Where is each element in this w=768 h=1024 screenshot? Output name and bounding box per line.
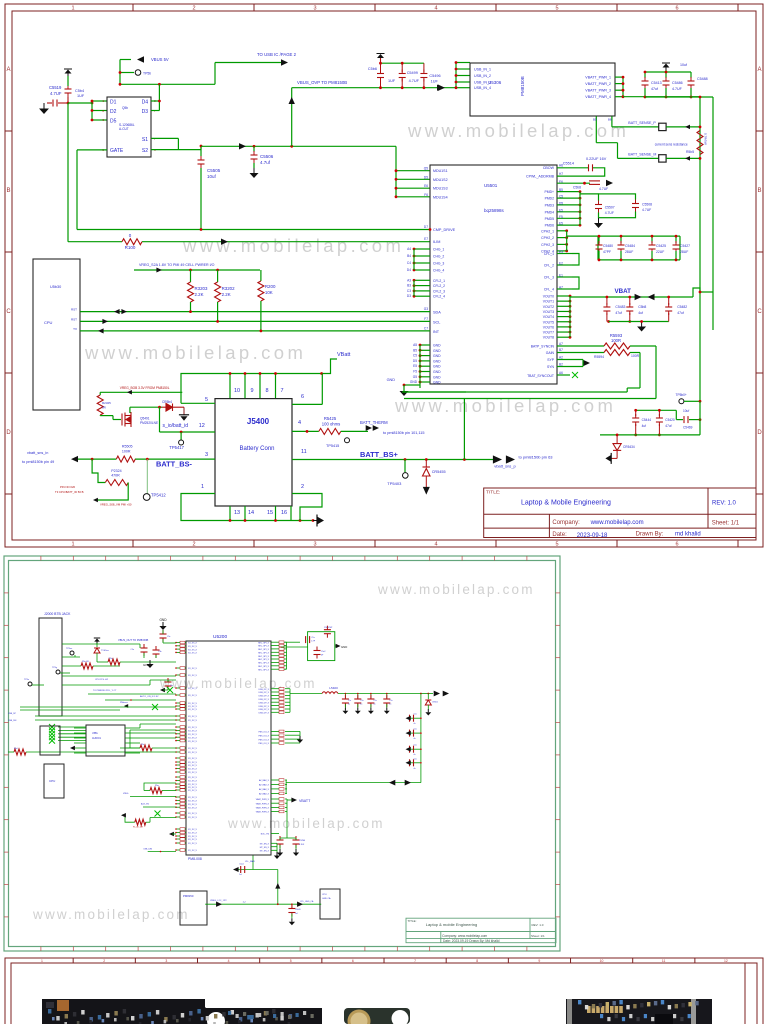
svg-text:XX_XX_X: XX_XX_X <box>188 706 198 708</box>
svg-text:4u: 4u <box>348 704 350 706</box>
wire row2 <box>130 795 176 797</box>
svg-text:CHG_1: CHG_1 <box>433 248 444 252</box>
svg-text:www.mobilelap.com: www.mobilelap.com <box>227 816 385 831</box>
svg-text:SEC_SPI_X: SEC_SPI_X <box>258 653 270 655</box>
svg-text:vbatt_sns_p: vbatt_sns_p <box>494 464 516 469</box>
svg-text:B5: B5 <box>593 118 597 122</box>
svg-text:MT_SN_X: MT_SN_X <box>260 851 270 853</box>
resistor R3202 2.2K <box>216 269 219 272</box>
svg-text:C5x: C5x <box>414 745 417 747</box>
svg-text:R5594: R5594 <box>594 355 604 359</box>
svg-text:CR5b4: CR5b4 <box>162 400 172 404</box>
x connect group <box>58 726 86 728</box>
svg-text:PMD3: PMD3 <box>545 203 555 207</box>
pins U5200 right upper <box>271 641 279 643</box>
svg-text:CFL2_1: CFL2_1 <box>433 279 445 283</box>
svg-text:BATT_BS+: BATT_BS+ <box>360 450 399 459</box>
svg-text:9: 9 <box>250 388 253 394</box>
svg-text:J5400: J5400 <box>247 417 270 426</box>
svg-text:www.mobilelap.com: www.mobilelap.com <box>159 676 317 691</box>
u5b pins <box>125 727 140 729</box>
svg-text:TP5b: TP5b <box>143 72 151 76</box>
svg-text:S1: S1 <box>142 137 148 143</box>
svg-text:C5506: C5506 <box>260 154 274 159</box>
svg-text:D5: D5 <box>424 175 428 179</box>
svg-text:current sens resistance: current sens resistance <box>655 143 688 147</box>
svg-text:C5508: C5508 <box>642 203 652 207</box>
svg-text:USB_DP_X: USB_DP_X <box>259 689 270 691</box>
pins U5200 right group5 vbatt <box>271 798 279 800</box>
svg-text:USB_DM: USB_DM <box>8 720 17 722</box>
svg-text:D: D <box>6 430 11 436</box>
svg-text:ILIM: ILIM <box>433 240 440 244</box>
svg-text:D3: D3 <box>407 294 411 298</box>
svg-text:PM8-008: PM8-008 <box>188 857 202 861</box>
svg-text:VREG: VREG <box>123 793 129 795</box>
svg-text:BATT_SENSE_P: BATT_SENSE_P <box>628 121 656 125</box>
wire vbatt pwr out <box>622 77 624 97</box>
svg-text:TP5x: TP5x <box>24 679 30 681</box>
sheet2 border ticks <box>4 556 560 951</box>
svg-text:12: 12 <box>724 959 728 963</box>
svg-text:C5499: C5499 <box>407 71 418 75</box>
svg-text:MDU1S1: MDU1S1 <box>433 169 448 173</box>
wire i2c rail SCL <box>80 320 430 322</box>
svg-text:USB_DP_X: USB_DP_X <box>259 709 270 711</box>
svg-text:A7: A7 <box>559 286 563 290</box>
svg-text:2: 2 <box>192 6 195 12</box>
ground <box>425 476 427 487</box>
svg-text:XX_XX_X: XX_XX_X <box>188 801 198 803</box>
resistor pair mid <box>140 745 152 751</box>
svg-text:VBAT: VBAT <box>615 288 632 295</box>
svg-text:XX_XX_X: XX_XX_X <box>188 833 198 835</box>
wire pin12 <box>160 431 216 433</box>
svg-text:E5: E5 <box>559 208 563 212</box>
svg-text:XX_XX_X: XX_XX_X <box>188 668 198 670</box>
svg-text:4: 4 <box>434 6 437 12</box>
transistor Q5506 load switch <box>107 97 151 157</box>
photo pcb right <box>566 999 712 1024</box>
svg-text:MDU1S2: MDU1S2 <box>433 178 448 182</box>
wire usb in bus <box>437 85 444 91</box>
svg-text:AV_NAV_X: AV_NAV_X <box>259 784 270 787</box>
wire D pins bus <box>68 102 92 104</box>
wire loop left of u5200 bottom <box>144 783 176 791</box>
svg-text:P2324: P2324 <box>111 469 121 473</box>
svg-text:PBS_OU_X: PBS_OU_X <box>258 743 269 745</box>
svg-text:J2000 BTB JACK: J2000 BTB JACK <box>44 612 71 616</box>
svg-text:TITLE:: TITLE: <box>408 919 417 923</box>
svg-text:VBATT: VBATT <box>299 799 311 803</box>
svg-text:Q5b: Q5b <box>122 106 128 110</box>
testpoint TPa <box>28 682 32 686</box>
svg-text:CR5b1: CR5b1 <box>432 702 438 704</box>
testpoint TP5412 <box>146 459 148 493</box>
svg-text:CFL2_2: CFL2_2 <box>433 284 445 288</box>
svg-text:GND: GND <box>433 365 441 369</box>
svg-text:10K: 10K <box>265 290 273 295</box>
wire caps bottom rail <box>600 434 700 436</box>
pins GND group <box>420 344 430 346</box>
svg-text:PM8150: PM8150 <box>183 894 194 898</box>
svg-text:XX_XX_X: XX_XX_X <box>188 675 198 677</box>
wire group2 to L5400 <box>290 693 322 695</box>
svg-text:470R: 470R <box>111 474 120 478</box>
arrow right <box>635 294 642 300</box>
ic U5b30 cpu <box>33 259 80 410</box>
svg-text:4.7UF: 4.7UF <box>642 208 651 212</box>
svg-text:1: 1 <box>71 6 74 12</box>
svg-text:VBAT_PWR_X: VBAT_PWR_X <box>256 807 270 810</box>
svg-text:XX_XX_X: XX_XX_X <box>188 781 198 783</box>
svg-text:XX_XX_X: XX_XX_X <box>188 688 198 690</box>
svg-text:AUDIO1: AUDIO1 <box>92 737 102 740</box>
svg-text:C5b: C5b <box>158 651 161 653</box>
svg-text:U5501: U5501 <box>484 183 498 188</box>
svg-text:10uf: 10uf <box>207 174 217 179</box>
wire gate loop <box>77 149 107 151</box>
caps pair mid <box>141 644 148 656</box>
svg-text:BATT_BS-: BATT_BS- <box>156 460 193 469</box>
wire pin11 bs+ <box>292 459 493 461</box>
svg-text:8: 8 <box>265 388 268 394</box>
svg-text:4: 4 <box>434 542 437 548</box>
wire pin4 therm <box>292 430 319 432</box>
svg-text:AV_NAV_X: AV_NAV_X <box>259 793 270 796</box>
green loop caps C5507 C5508 <box>599 194 636 218</box>
svg-text:TP5xx: TP5xx <box>66 648 73 650</box>
svg-text:C: C <box>6 309 11 315</box>
svg-text:VOUT5: VOUT5 <box>543 320 554 324</box>
wire pin2 <box>292 494 322 521</box>
wire gnd drop to bs+ <box>463 399 465 460</box>
svg-text:XX_XX_X: XX_XX_X <box>188 709 198 711</box>
svg-text:47uf: 47uf <box>665 424 671 428</box>
wire drain up <box>129 407 131 413</box>
svg-text:USB_IN_3: USB_IN_3 <box>474 81 491 85</box>
svg-text:4uf: 4uf <box>642 424 647 428</box>
capacitor C5420 <box>658 410 660 416</box>
svg-text:USB_IN_4: USB_IN_4 <box>474 86 491 90</box>
svg-text:47uf: 47uf <box>677 311 684 315</box>
sheet1 border frame <box>5 4 763 547</box>
svg-text:4.7UF: 4.7UF <box>599 187 608 191</box>
wire ovp rail <box>292 87 456 89</box>
svg-text:C5x: C5x <box>360 700 363 702</box>
svg-text:VBATT_PWR_2: VBATT_PWR_2 <box>585 82 611 86</box>
svg-text:CFL_1: CFL_1 <box>544 252 554 256</box>
svg-text:VBAT_PWR_X: VBAT_PWR_X <box>256 802 270 805</box>
svg-text:R5w: R5w <box>155 785 159 787</box>
svg-text:C5x: C5x <box>167 636 170 638</box>
svg-text:C: C <box>757 309 762 315</box>
pins U5200 left <box>176 642 180 644</box>
svg-text:10uf: 10uf <box>683 409 689 413</box>
svg-text:CPU POL H2: CPU POL H2 <box>95 679 109 681</box>
svg-text:F7: F7 <box>424 317 428 321</box>
svg-text:vbatt_sns_in: vbatt_sns_in <box>27 451 48 455</box>
svg-text:D5: D5 <box>110 119 117 125</box>
sheet2 title block <box>406 918 556 943</box>
node vbus junctions <box>67 102 70 105</box>
svg-text:USB_DP_X: USB_DP_X <box>259 699 270 701</box>
ground <box>637 322 646 332</box>
wire right rails <box>645 96 713 98</box>
capacitor C5q3 <box>314 647 321 659</box>
wire sec spi bus <box>285 641 287 643</box>
svg-text:XX_XX_X: XX_XX_X <box>188 839 198 841</box>
svg-text:USB_IN_1: USB_IN_1 <box>474 68 491 72</box>
svg-text:D5: D5 <box>559 201 563 205</box>
svg-text:D7: D7 <box>424 225 428 229</box>
ground <box>297 736 303 743</box>
svg-text:3: 3 <box>313 6 316 12</box>
capacitor C5444 <box>635 410 637 416</box>
svg-text:TP5415: TP5415 <box>326 444 339 448</box>
svg-text:VBAT_PWR_X: VBAT_PWR_X <box>256 811 270 814</box>
svg-text:TX: TX <box>73 327 77 331</box>
svg-text:C5x: C5x <box>373 700 376 702</box>
capacitor C5483 <box>675 236 677 243</box>
svg-text:7: 7 <box>154 137 156 141</box>
arrow left mid <box>169 832 174 836</box>
svg-text:A4: A4 <box>407 247 411 251</box>
ic U5200 pmic <box>186 641 271 855</box>
ic U5c small <box>40 726 60 755</box>
ic PM8150 bottom box <box>180 891 207 925</box>
svg-text:SYP: SYP <box>547 358 555 362</box>
svg-text:XX_XX_X: XX_XX_X <box>188 731 198 733</box>
capacitor C5506 4.7uf <box>253 145 256 148</box>
svg-text:C1b20: C1b20 <box>295 909 301 911</box>
svg-text:XX_XX_X: XX_XX_X <box>188 737 198 739</box>
svg-text:USB_DP_X: USB_DP_X <box>259 702 270 704</box>
svg-text:CR5434: CR5434 <box>623 445 635 449</box>
svg-text:11: 11 <box>301 449 307 455</box>
wire top cap rail <box>381 62 424 64</box>
transistor Q5491 <box>122 412 131 427</box>
svg-text:XX_XX_X: XX_XX_X <box>188 804 198 806</box>
svg-text:SEC_SPI_X: SEC_SPI_X <box>258 646 270 648</box>
svg-text:0R: 0R <box>102 406 107 410</box>
svg-text:md khalid: md khalid <box>675 532 701 538</box>
pins U5200 right group2 <box>271 688 279 690</box>
wire vreg bob rail <box>100 391 182 393</box>
svg-text:4: 4 <box>228 959 230 963</box>
svg-text:C5480: C5480 <box>603 244 613 248</box>
pins CFH group <box>557 230 567 232</box>
svg-text:VLL_MAX: VLL_MAX <box>245 860 255 863</box>
resistor R5425 100ohms <box>319 428 341 434</box>
pins CFL right group <box>557 253 572 255</box>
svg-text:C5488: C5488 <box>697 77 708 81</box>
svg-text:Drawn By:: Drawn By: <box>636 532 664 538</box>
svg-text:USB_DP_X: USB_DP_X <box>259 692 270 694</box>
svg-text:4u: 4u <box>360 704 362 706</box>
svg-text:4u: 4u <box>414 738 416 740</box>
svg-text:Laptop & Mobile Engineering: Laptop & Mobile Engineering <box>521 500 611 507</box>
svg-text:SEC_SPI_X: SEC_SPI_X <box>258 663 270 665</box>
svg-text:C5507: C5507 <box>605 206 615 210</box>
capacitor bank top right rail <box>645 71 691 73</box>
svg-text:4.7F: 4.7F <box>311 641 316 643</box>
svg-text:USB_DP_X: USB_DP_X <box>259 713 270 715</box>
svg-text:2: 2 <box>103 959 105 963</box>
left wires bundle <box>62 675 176 677</box>
svg-text:TBAT_SYNCOUT: TBAT_SYNCOUT <box>527 374 554 378</box>
svg-text:F5: F5 <box>413 370 417 374</box>
resistor R5w1 <box>150 788 162 794</box>
svg-text:XX_XX_X: XX_XX_X <box>188 836 198 838</box>
svg-text:XX_XX_X: XX_XX_X <box>188 703 198 705</box>
svg-text:R5425: R5425 <box>324 416 337 421</box>
svg-text:E5: E5 <box>559 222 563 226</box>
svg-text:USB_DP_X: USB_DP_X <box>259 696 270 698</box>
capacitor C5496 1UF <box>423 63 425 72</box>
svg-text:VBUS_OVP TO PM8150B: VBUS_OVP TO PM8150B <box>297 80 347 85</box>
svg-text:4.7UF: 4.7UF <box>672 87 683 91</box>
svg-text:E6: E6 <box>424 184 428 188</box>
svg-text:REV: 1.0: REV: 1.0 <box>532 923 544 927</box>
svg-text:GND: GND <box>341 645 347 649</box>
svg-text:B4: B4 <box>407 254 411 258</box>
svg-text:D2: D2 <box>110 109 117 115</box>
wire main rail y146 <box>201 145 396 147</box>
resistor R2325 <box>99 392 101 395</box>
svg-text:D4: D4 <box>407 268 411 272</box>
testpoint TP5510 <box>120 72 134 74</box>
ic U5306 PM8150B charger in <box>470 63 615 116</box>
svg-text:R5x: R5x <box>109 658 113 660</box>
svg-text:www.mobilelap.com: www.mobilelap.com <box>377 582 535 597</box>
svg-text:Company: www.mobilelap.com: Company: www.mobilelap.com <box>442 934 487 938</box>
svg-text:USB_IN_2: USB_IN_2 <box>474 74 491 78</box>
svg-text:4u: 4u <box>414 768 416 770</box>
diode TVS5 <box>94 648 100 653</box>
svg-text:6: 6 <box>352 959 354 963</box>
svg-text:D: D <box>757 430 762 436</box>
svg-text:to pmi8150b pin 49: to pmi8150b pin 49 <box>22 460 54 464</box>
svg-text:CFL_3: CFL_3 <box>544 276 554 280</box>
svg-text:C5a: C5a <box>131 649 135 651</box>
svg-text:F5: F5 <box>559 215 563 219</box>
svg-text:VBATT_PWR_4: VBATT_PWR_4 <box>585 95 611 99</box>
svg-text:VOUT6: VOUT6 <box>543 325 554 329</box>
svg-text:VBATT_PWR_3: VBATT_PWR_3 <box>585 89 611 93</box>
svg-text:1UF: 1UF <box>77 94 85 98</box>
svg-text:2023-09-18: 2023-09-18 <box>577 533 608 539</box>
svg-text:XX_XX_X: XX_XX_X <box>188 649 198 651</box>
svg-text:R5x 0R: R5x 0R <box>82 661 89 663</box>
svg-text:D4: D4 <box>142 100 149 106</box>
svg-text:SEC_SPI_X: SEC_SPI_X <box>258 659 270 661</box>
ground GND2 <box>146 660 153 668</box>
svg-text:XX_XX_X: XX_XX_X <box>188 769 198 771</box>
svg-text:CFL_4: CFL_4 <box>544 288 554 292</box>
svg-text:C5482: C5482 <box>677 305 687 309</box>
svg-text:D1: D1 <box>110 100 117 106</box>
svg-text:Date: 2023.09.19 Drawn: Date: 2023.09.19 Drawn By: Md khalid <box>443 939 500 943</box>
svg-text:REV: 1.0: REV: 1.0 <box>712 501 736 507</box>
svg-text:XX_XX_X: XX_XX_X <box>188 748 198 750</box>
svg-text:PM8150B: PM8150B <box>520 76 525 96</box>
svg-text:XX_XX_X: XX_XX_X <box>188 741 198 743</box>
svg-text:10u: 10u <box>170 685 173 687</box>
svg-text:Company:: Company: <box>552 520 580 526</box>
wire mdu feed <box>395 146 397 197</box>
svg-text:SDA: SDA <box>433 311 441 315</box>
svg-text:C5b8: C5b8 <box>573 186 581 190</box>
svg-text:1uf: 1uf <box>239 874 242 876</box>
ground arrow left <box>616 450 618 458</box>
pins U5200 right group3 <box>271 730 279 732</box>
svg-text:28UF: 28UF <box>625 250 633 254</box>
svg-text:11: 11 <box>662 959 666 963</box>
svg-text:47uf: 47uf <box>615 311 622 315</box>
sheet3 border frame <box>5 958 763 1024</box>
svg-text:TP5417: TP5417 <box>169 445 184 450</box>
svg-text:www.mobilelap.com: www.mobilelap.com <box>84 342 306 363</box>
svg-text:4uf: 4uf <box>638 311 643 315</box>
svg-text:C5x4: C5x4 <box>239 864 243 866</box>
svg-text:C5519: C5519 <box>49 85 62 90</box>
diode CR5442 <box>162 404 184 412</box>
svg-text:PMxxxx: PMxxxx <box>120 702 129 704</box>
svg-text:2-2: 2-2 <box>243 901 247 903</box>
svg-text:C5b4: C5b4 <box>75 89 84 93</box>
ic U5Bx audio codec <box>86 725 125 756</box>
svg-text:XX_XX_X: XX_XX_X <box>188 829 198 831</box>
svg-text:0.7R/5W: 0.7R/5W <box>704 133 708 145</box>
resistor R3203 2.2K <box>189 269 192 272</box>
svg-text:VBAT_PWR_X: VBAT_PWR_X <box>256 798 270 801</box>
svg-text:1UF: 1UF <box>388 79 396 83</box>
capacitor C5507 4.7UF <box>593 201 604 212</box>
svg-text:R5c: R5c <box>141 744 144 746</box>
svg-text:B8: B8 <box>608 118 612 122</box>
arrow left <box>648 294 655 300</box>
svg-text:C5496: C5496 <box>429 74 440 78</box>
svg-text:RST: RST <box>71 308 77 312</box>
svg-text:C5x: C5x <box>348 700 351 702</box>
capacitor C5480 <box>598 236 600 243</box>
wire pin6 <box>292 403 322 405</box>
svg-text:C5444: C5444 <box>642 418 652 422</box>
svg-text:4.7UF: 4.7UF <box>50 91 62 96</box>
svg-text:GND: GND <box>433 344 441 348</box>
svg-text:MT_SN_X: MT_SN_X <box>260 844 270 846</box>
svg-text:B5: B5 <box>413 348 417 352</box>
svg-text:T3 CPU/BATT_ID 50 B: T3 CPU/BATT_ID 50 B <box>55 490 84 494</box>
svg-text:TO PMI8150 POL_Y CT: TO PMI8150 POL_Y CT <box>93 690 117 692</box>
svg-text:CR5455: CR5455 <box>432 470 446 474</box>
svg-text:R100: R100 <box>125 245 136 250</box>
svg-text:4P: 4P <box>321 655 324 657</box>
svg-text:CPWL_ADDRMB: CPWL_ADDRMB <box>526 175 555 179</box>
testpoint TP5403 <box>404 460 406 473</box>
svg-text:VOUT1: VOUT1 <box>543 300 554 304</box>
wire i2c rail SDA <box>80 311 430 313</box>
svg-text:L5400: L5400 <box>329 686 338 690</box>
svg-text:VOUT8: VOUT8 <box>543 336 554 340</box>
svg-text:C5x: C5x <box>414 758 417 760</box>
svg-text:14: 14 <box>248 510 254 516</box>
svg-text:VOUT0: VOUT0 <box>543 295 554 299</box>
wire S1 S2 join <box>151 137 178 139</box>
mid bottom bus wires <box>130 729 176 731</box>
svg-text:XX_XX_X: XX_XX_X <box>188 797 198 799</box>
